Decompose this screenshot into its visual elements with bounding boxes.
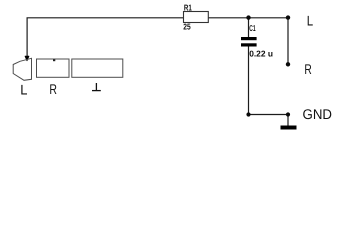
svg-text:25: 25 bbox=[183, 22, 191, 32]
svg-text:GND: GND bbox=[303, 106, 333, 122]
svg-text:0.22 u: 0.22 u bbox=[249, 49, 273, 59]
svg-text:L: L bbox=[307, 13, 314, 29]
svg-text:R: R bbox=[304, 61, 311, 77]
svg-text:C1: C1 bbox=[249, 23, 255, 33]
svg-text:R: R bbox=[49, 81, 57, 97]
svg-text:L: L bbox=[20, 82, 27, 98]
svg-text:R1: R1 bbox=[184, 3, 192, 13]
